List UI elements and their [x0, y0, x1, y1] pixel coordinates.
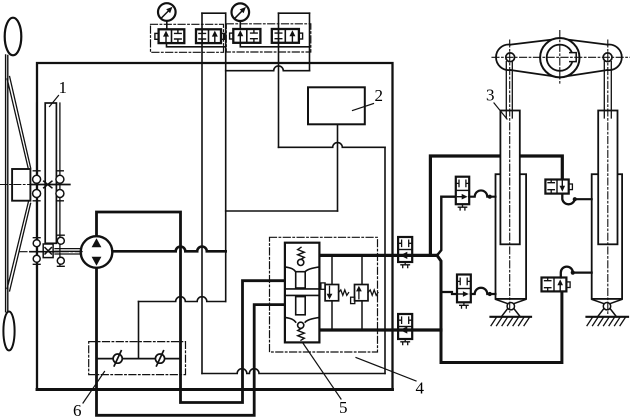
branch junction to left cyl upper valve — [437, 197, 456, 256]
slider block lower — [43, 244, 53, 258]
wire x385 drop to A-line — [384, 147, 386, 373]
hydraulic lock body 5 — [285, 243, 320, 343]
throttle check right — [155, 351, 164, 366]
dash-dot enclosure group2 — [226, 24, 310, 52]
wire y147 from V3 to right drop, hop over box2 drop — [279, 143, 386, 148]
svg-text:4: 4 — [416, 379, 425, 398]
relief valve left — [321, 283, 349, 301]
label 2 leader — [353, 104, 374, 111]
block 4/5 dash-dot enclosure — [270, 237, 378, 352]
wire y211 to V2 — [226, 210, 338, 212]
wire relief-right to A and B — [361, 255, 363, 330]
wire V1 from valve loop down — [201, 13, 203, 373]
wire pump outlet to V2, hops over x180.5 and V1 — [112, 247, 225, 252]
centerlines dash-dot — [0, 31, 630, 317]
left lower valve outlet hose hop into cylinder — [471, 288, 496, 294]
thick pipe B from block5 to right riser — [319, 328, 441, 331]
rudder stock boss — [540, 38, 579, 77]
svg-text:5: 5 — [339, 398, 348, 417]
thick riser down and bottom line y362.5 — [437, 255, 562, 362]
wire V2 from valve loop down — [225, 13, 227, 301]
thick riser up and cross line y156 — [430, 156, 562, 255]
main frame loop (tank/return circuit) — [37, 63, 393, 390]
right hydraulic cylinder — [592, 62, 622, 299]
tiller pin right — [603, 53, 612, 62]
label 1 leader — [50, 96, 59, 107]
branch to left cyl lower valve — [441, 292, 457, 294]
wire V4 from valve loop down — [309, 13, 311, 70]
pressure gauge G2 — [232, 3, 250, 29]
thick pipe: pump top loop through box6 right to block5 upper-left port — [97, 212, 285, 403]
clutch cross lower — [45, 248, 51, 254]
wire x138.5 down to box6 — [138, 302, 140, 359]
wire box2 drop — [337, 124, 339, 211]
label 4 leader — [356, 358, 416, 382]
tiller pin left — [506, 53, 515, 62]
wire relief-left to A and B — [331, 255, 333, 330]
clutch cross upper — [44, 181, 52, 188]
pump splined shaft — [55, 249, 82, 254]
pressure gauge G1 — [158, 3, 176, 29]
svg-text:1: 1 — [59, 78, 68, 97]
shut-off valve top 1 — [155, 29, 184, 43]
wire y301.5 box6 branch to V2, hops over x180.5 and V1 — [139, 297, 226, 302]
guide rails and bushings — [33, 103, 65, 268]
right lower valve outlet hook into cylinder — [561, 267, 573, 278]
wire inside box6 — [97, 358, 181, 360]
shut-off valve top 3 — [230, 29, 261, 43]
wire loop top group1 — [202, 12, 226, 14]
tiller arm — [496, 39, 622, 78]
left cylinder shutoff valve lower — [457, 275, 471, 309]
thick pipe A from block5 to junction — [319, 254, 437, 257]
wire under group1 valves — [167, 43, 226, 47]
right upper valve outlet hook into cylinder — [562, 194, 575, 205]
right cylinder shutoff valve lower — [542, 278, 571, 292]
right cylinder shutoff valve upper — [545, 180, 572, 194]
left hydraulic cylinder 3 — [496, 62, 527, 299]
left cylinder trunnion and ground — [491, 300, 532, 326]
dash-dot enclosure group1 — [151, 24, 224, 52]
label 5 leader — [303, 343, 342, 400]
throttle check left — [113, 351, 122, 366]
lower drive shaft line — [30, 251, 58, 253]
left cylinder shutoff valve upper — [456, 177, 469, 210]
left upper valve outlet hose hop into cylinder — [469, 190, 495, 196]
steering wheel — [3, 18, 30, 351]
svg-text:3: 3 — [486, 86, 495, 105]
controller box 2 — [308, 87, 365, 124]
svg-text:6: 6 — [73, 401, 82, 420]
wire y71 manifold with hop over V3 — [226, 66, 310, 71]
wire y373.5 drain line, hops over thick risers — [202, 369, 385, 374]
label 3 leader — [494, 103, 507, 119]
wire V3 from valve loop down — [278, 13, 280, 147]
isolating valve on line B — [398, 314, 412, 345]
svg-text:2: 2 — [375, 86, 384, 105]
shut-off valve top 4 — [272, 29, 303, 43]
relief valve right — [351, 285, 378, 304]
thick pipe: pump bottom loop to block5 lower-left port — [97, 268, 285, 416]
hand pump — [81, 236, 113, 268]
wire loop top group2 — [279, 12, 310, 14]
right cylinder trunnion and ground — [587, 300, 629, 326]
label 6 leader — [83, 372, 105, 404]
replenishing box 6 dash-dot — [89, 342, 186, 375]
control rod 1 — [45, 103, 56, 243]
wire under group2 valves — [240, 43, 309, 47]
isolating valve on line A — [398, 237, 412, 268]
wheel axle — [30, 184, 69, 186]
shut-off valve top 2 — [196, 29, 225, 43]
